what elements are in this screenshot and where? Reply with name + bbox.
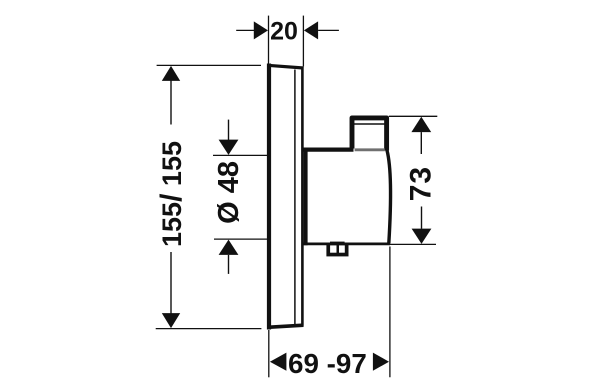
dimension 20: right arrow (304, 21, 318, 39)
dimension diameter 48: bottom extension line (214, 238, 268, 240)
dimension 73: bottom extension line (387, 243, 436, 245)
valve body bottom edge (304, 242, 391, 245)
svg-text:155/ 155: 155/ 155 (155, 141, 188, 247)
dimension 20: right extension line (302, 16, 304, 67)
svg-text:Ø 48: Ø 48 (213, 161, 245, 224)
dimension 73: top arrow (411, 117, 431, 132)
valve body right edge (curved) (387, 150, 391, 244)
svg-text:69 -97: 69 -97 (288, 348, 367, 379)
dimension 73: bottom stem (421, 207, 423, 229)
svg-text:20: 20 (270, 17, 298, 45)
dimension diameter 48: top extension line (213, 154, 267, 156)
bottom connector tab (326, 242, 348, 257)
dimension 155/155: top arrow (162, 66, 180, 81)
dimension 73: top extension line (389, 115, 438, 117)
escutcheon plate inner face line (294, 70, 296, 325)
dimension 69-97: left extension line (268, 330, 270, 377)
dimension 69-97: right arrow (373, 353, 389, 371)
dimension 20: left tail line (236, 29, 254, 31)
dimension diameter 48: top arrow (219, 140, 239, 155)
dimension 155/155: bottom arrow (162, 313, 180, 328)
escutcheon plate bottom edge (268, 325, 304, 327)
dimension 155/155: top extension line (157, 64, 261, 66)
valve body top edge (304, 148, 354, 152)
escutcheon plate left edge (267, 64, 271, 330)
escutcheon plate right edge (301, 67, 304, 326)
svg-text:73: 73 (405, 166, 438, 201)
dimension 73: bottom arrow (412, 229, 432, 244)
stop-valve head box (352, 118, 387, 151)
dimension diameter 48: top stem (228, 120, 230, 141)
dimension 155/155: bottom extension line (156, 328, 262, 330)
stop-valve head inner line (354, 123, 386, 125)
body/head junction grey line (355, 148, 385, 151)
dimension 155/155: bottom stem (170, 252, 172, 314)
dimension diameter 48: bottom stem (228, 255, 230, 274)
dimension diameter 48: bottom arrow (219, 240, 239, 255)
dimension 69-97: left arrow (270, 353, 287, 371)
escutcheon plate top edge (268, 65, 304, 68)
dimension 73: top stem (420, 132, 422, 154)
dimension 20: left arrow (254, 21, 268, 39)
valve body left edge (304, 148, 308, 246)
dimension 69-97: right extension line (389, 247, 391, 378)
dimension 20: left extension line (268, 16, 270, 64)
dimension 155/155: top stem (170, 80, 172, 125)
dimension 20: right tail line (318, 29, 339, 31)
